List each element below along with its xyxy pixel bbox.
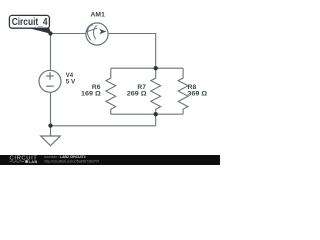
node junction dot resistor bottom bus xyxy=(154,112,158,116)
flag box Circuit_4 xyxy=(9,15,49,28)
wire: ammeter to top-right corner xyxy=(108,33,156,35)
svg-text:269 Ω: 269 Ω xyxy=(127,92,147,98)
voltage source V4 xyxy=(39,70,61,92)
node junction dot ground xyxy=(48,123,52,127)
wire: top bus from node to ammeter xyxy=(51,33,87,35)
svg-text:5 V: 5 V xyxy=(66,79,75,85)
label R7 value xyxy=(127,85,147,98)
wire: node down to V4 top xyxy=(50,34,52,71)
svg-text:V4: V4 xyxy=(66,73,74,79)
svg-text:Circuit_4: Circuit_4 xyxy=(12,17,48,28)
svg-text:http://circuitlab.com/c/5a8557: http://circuitlab.com/c/5a8557383797 xyxy=(44,159,100,163)
svg-text:R8: R8 xyxy=(188,85,197,91)
flag tail for Circuit_4 label xyxy=(25,27,51,34)
label R8 value xyxy=(187,85,207,98)
wire: R7 tail down xyxy=(155,114,157,126)
svg-text:169 Ω: 169 Ω xyxy=(81,92,101,98)
ammeter AM1 xyxy=(86,23,108,45)
label R6 value xyxy=(81,85,101,98)
wire: vertical feed down to resistor top bus xyxy=(155,34,157,69)
svg-text:R7: R7 xyxy=(137,85,146,91)
svg-text:AM1: AM1 xyxy=(91,12,106,18)
svg-text:R6: R6 xyxy=(92,85,101,91)
watermark logo LAB xyxy=(25,160,28,163)
svg-text:369 Ω: 369 Ω xyxy=(187,92,207,98)
watermark bar xyxy=(0,155,220,165)
wire: bottom return to ground junction xyxy=(51,125,156,127)
watermark logo zigzag xyxy=(10,160,25,162)
wire: V4 bottom down to ground junction xyxy=(50,92,52,126)
svg-text:LAB: LAB xyxy=(29,159,38,164)
ammeter arrow head xyxy=(99,29,106,35)
label V4 value xyxy=(66,73,75,85)
node junction dot resistor top bus xyxy=(154,66,158,70)
node junction dot top-left xyxy=(48,31,52,35)
ground xyxy=(50,126,52,136)
wire: resistor top bus xyxy=(111,67,183,69)
resistor R6 xyxy=(106,68,116,114)
wire: resistor bottom bus xyxy=(111,113,183,115)
resistor R7 xyxy=(151,68,161,114)
resistor R8 xyxy=(178,68,188,114)
